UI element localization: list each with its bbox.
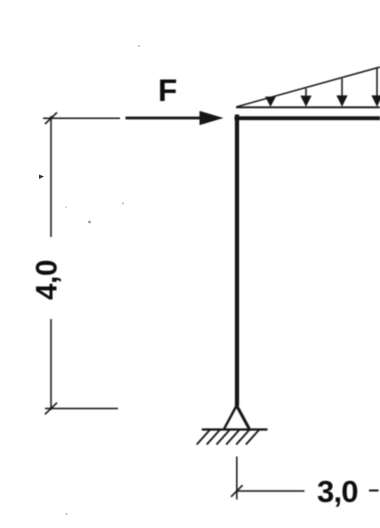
column (vertical member) [235, 115, 239, 406]
svg-text:3,0: 3,0 [317, 474, 358, 509]
bottom dimension line [238, 490, 305, 492]
load arrow 3 [336, 79, 347, 107]
ground line [202, 428, 268, 430]
left dimension extension line top [43, 117, 120, 119]
beam (horizontal member) [235, 116, 380, 120]
left dimension line upper segment [50, 116, 52, 237]
force arrow F [126, 111, 224, 125]
svg-text:F: F [158, 72, 177, 108]
svg-text:4,0: 4,0 [31, 260, 64, 300]
left dimension line lower segment [50, 319, 52, 410]
dimension label 3,0 [317, 474, 358, 509]
label F [158, 72, 177, 108]
bottom dimension extension line [236, 457, 238, 500]
speck marks from scan [39, 45, 140, 515]
load arrow 1 [265, 97, 276, 107]
left dimension tick bottom [45, 403, 57, 415]
distributed load diagonal (triangle hypotenuse) [237, 67, 380, 107]
distributed load baseline [236, 106, 380, 108]
support triangle [224, 406, 249, 429]
bottom dimension tick [231, 485, 243, 497]
left dimension extension line bottom [45, 408, 118, 410]
load arrow 2 [300, 89, 311, 107]
load arrow 4 [371, 69, 380, 107]
bottom dimension line right dash [369, 490, 379, 492]
left dimension tick top [45, 112, 57, 124]
dimension label 4,0 [31, 260, 64, 300]
ground hatching [197, 430, 259, 445]
